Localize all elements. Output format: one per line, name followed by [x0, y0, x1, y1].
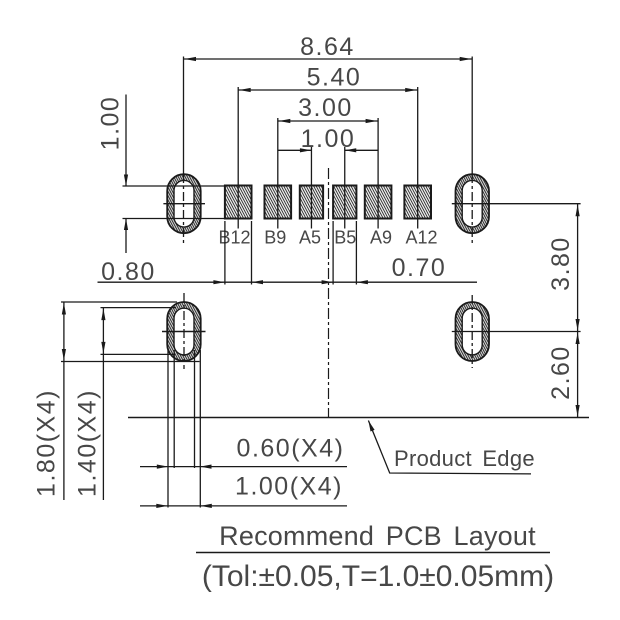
pad label B5 — [334, 228, 356, 248]
pad label A9 — [370, 228, 392, 248]
dimension 1.00 vertical left — [97, 95, 225, 254]
svg-text:2.60: 2.60 — [547, 345, 575, 400]
dimension 0.60(X4) — [140, 350, 347, 469]
slot hole top-left — [163, 174, 205, 233]
pad A5 — [300, 186, 323, 219]
svg-text:5.40: 5.40 — [307, 64, 362, 92]
pad label B12 — [218, 228, 250, 248]
svg-text:A5: A5 — [299, 228, 321, 248]
svg-text:0.70: 0.70 — [392, 254, 447, 282]
product edge line — [128, 417, 589, 419]
dimension 8.64 — [184, 33, 473, 244]
pad B9 — [265, 186, 292, 219]
svg-text:1.00(X4): 1.00(X4) — [235, 473, 343, 501]
dimension 2.60 right — [547, 332, 580, 418]
svg-text:B12: B12 — [218, 228, 250, 248]
svg-text:B5: B5 — [334, 228, 356, 248]
svg-text:1.00: 1.00 — [301, 125, 356, 153]
dimension 1.00 horizontal — [278, 125, 378, 229]
svg-text:1.80(X4): 1.80(X4) — [33, 389, 61, 497]
pad B5 — [333, 186, 356, 219]
slot hole top-right — [456, 174, 490, 233]
centerline of connector — [328, 168, 330, 418]
pad label A5 — [299, 228, 321, 248]
svg-text:1.40(X4): 1.40(X4) — [74, 389, 102, 497]
dimension 3.80 right — [452, 204, 581, 332]
svg-text:0.60(X4): 0.60(X4) — [237, 435, 345, 463]
svg-text:A12: A12 — [405, 228, 437, 248]
dimension 1.80(X4) — [33, 302, 200, 500]
svg-text:A9: A9 — [370, 228, 392, 248]
pad label B9 — [264, 228, 286, 248]
svg-text:1.00: 1.00 — [97, 96, 125, 151]
svg-text:3.80: 3.80 — [547, 236, 575, 291]
slot hole bottom-right — [456, 295, 490, 368]
product edge leader and label — [368, 421, 535, 474]
dimension 0.80 / 0.70 line — [98, 221, 478, 286]
svg-text:B9: B9 — [264, 228, 286, 248]
svg-text:0.80: 0.80 — [101, 258, 156, 286]
title: Recommend PCB Layout — [196, 521, 554, 593]
pad label A12 — [405, 228, 437, 248]
pad A12 — [404, 186, 431, 219]
dimension 1.40(X4) — [74, 308, 177, 500]
pad B12 — [225, 186, 252, 219]
svg-text:(Tol:±0.05,T=1.0±0.05mm): (Tol:±0.05,T=1.0±0.05mm) — [202, 560, 554, 593]
svg-text:8.64: 8.64 — [300, 33, 355, 61]
svg-text:Recommend PCB Layout: Recommend PCB Layout — [219, 521, 536, 551]
dimension 3.00 — [278, 94, 378, 229]
dimension 1.00(X4) — [140, 350, 347, 508]
dimension 5.40 — [238, 64, 418, 229]
svg-text:Product Edge: Product Edge — [394, 446, 535, 471]
svg-text:3.00: 3.00 — [298, 94, 353, 122]
slot hole bottom-left — [162, 293, 206, 369]
pad A9 — [365, 186, 392, 219]
